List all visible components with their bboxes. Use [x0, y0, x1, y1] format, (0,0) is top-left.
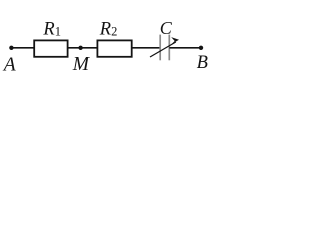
svg-text:M: M [72, 54, 91, 75]
svg-text:C: C [160, 18, 173, 38]
wire [68, 47, 98, 49]
node M [78, 46, 82, 50]
resistor R2 [97, 40, 131, 56]
svg-text:R2: R2 [99, 20, 118, 40]
wire [132, 47, 160, 49]
svg-text:R1: R1 [42, 20, 61, 40]
node A [9, 46, 13, 50]
capacitor C right plate [168, 35, 170, 61]
svg-text:B: B [197, 53, 208, 73]
wire [11, 47, 34, 49]
variable-capacitor arrow [150, 37, 179, 57]
wire [169, 47, 201, 49]
resistor R1 [34, 40, 67, 56]
node B [199, 46, 203, 50]
capacitor C left plate [159, 35, 161, 61]
svg-text:A: A [2, 55, 16, 76]
